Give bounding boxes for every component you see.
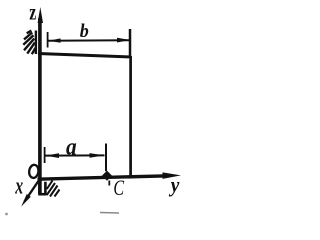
svg-text:C: C [113, 177, 125, 201]
svg-text:x: x [14, 174, 23, 200]
svg-text:z: z [29, 0, 36, 26]
svg-text:b: b [80, 21, 89, 43]
svg-text:a: a [66, 133, 77, 159]
